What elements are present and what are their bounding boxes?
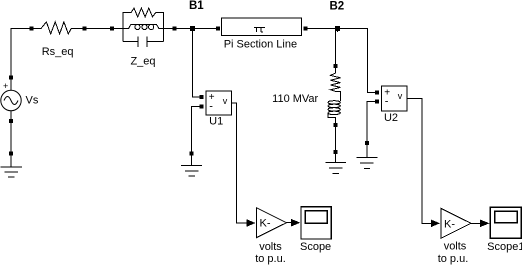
label volts to p.u. (left)	[255, 241, 286, 265]
svg-text:B1: B1	[189, 0, 204, 12]
ground below 110 MVar	[325, 150, 346, 174]
series RL branch 110 MVar	[328, 64, 341, 127]
wire: 110 MVar branch to ground	[335, 127, 337, 150]
ground below Vs	[1, 152, 23, 177]
ground below U1	[181, 151, 202, 176]
ground below U2	[357, 141, 378, 169]
svg-text:K-: K-	[260, 218, 271, 230]
svg-text:v: v	[223, 96, 228, 106]
pi section line block	[216, 18, 307, 36]
svg-text:+: +	[3, 81, 8, 91]
arrowhead into left gain	[247, 219, 256, 227]
wire: Z_eq to node B1	[177, 28, 190, 30]
wire: U2 output down to right gain	[407, 98, 431, 223]
svg-text:Scope1: Scope1	[487, 241, 522, 253]
scope Scope1	[490, 207, 521, 238]
wire: Rs_eq to Z_eq	[86, 28, 110, 30]
gain block volts to p.u. (right)	[441, 208, 471, 238]
gain block volts to p.u. (left)	[257, 208, 287, 238]
svg-text:Vs: Vs	[26, 95, 39, 107]
svg-text:volts: volts	[259, 241, 282, 253]
AC voltage source Vs	[1, 76, 21, 124]
svg-text:110 MVar: 110 MVar	[272, 93, 318, 105]
wire: B1 to Pi Section Line	[195, 28, 216, 30]
svg-text:volts: volts	[444, 241, 467, 253]
svg-text:to p.u.: to p.u.	[438, 253, 469, 265]
wire: U1 output down to gain	[232, 103, 247, 223]
wire: U2 minus to ground	[367, 102, 375, 141]
wire: Vs plus terminal up and right to Rs_eq	[11, 29, 30, 78]
wire: B2 right and down to U2 plus input	[340, 29, 375, 93]
label volts to p.u. (right)	[438, 241, 469, 265]
svg-text:Rs_eq: Rs_eq	[42, 46, 74, 58]
svg-text:U2: U2	[384, 112, 398, 124]
impedance block Z_eq (parallel RLC)	[110, 8, 177, 47]
node B2 junction	[335, 26, 340, 31]
wire: right gain to Scope1 with arrowhead	[471, 220, 490, 228]
svg-text:U1: U1	[209, 116, 223, 128]
wire: left gain to Scope with arrowhead	[287, 219, 301, 227]
voltage measurement U1	[200, 91, 232, 115]
wire: Pi Section Line to node B2	[307, 28, 335, 30]
svg-text:Scope: Scope	[300, 241, 331, 253]
voltage measurement U2	[375, 86, 407, 111]
wire: U1 minus to ground	[192, 107, 200, 152]
wire: B2 down to 110 MVar branch	[336, 31, 338, 64]
svg-text:to p.u.: to p.u.	[255, 253, 286, 265]
svg-text:B2: B2	[329, 1, 344, 13]
svg-text:K-: K-	[444, 218, 455, 230]
wire: Vs minus to ground	[10, 123, 12, 152]
svg-text:-: -	[209, 101, 213, 113]
wire: B1 down to U1 plus input	[192, 31, 199, 97]
arrowhead into right gain	[431, 220, 440, 228]
svg-text:v: v	[398, 91, 403, 101]
svg-text:-: -	[385, 96, 389, 108]
svg-text:Z_eq: Z_eq	[130, 56, 155, 68]
resistor Rs_eq	[30, 22, 87, 34]
node B1 junction	[190, 26, 195, 31]
svg-text:Pi Section Line: Pi Section Line	[224, 38, 297, 50]
scope Scope	[301, 207, 331, 239]
